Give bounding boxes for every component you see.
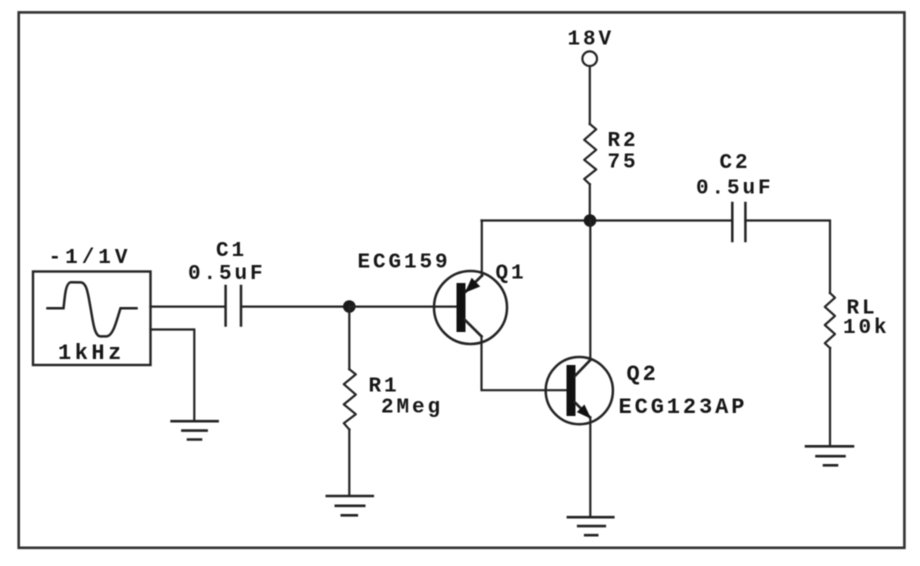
wire node A down to R1 <box>348 307 350 370</box>
ground (R1) <box>327 496 373 515</box>
svg-text:R1: R1 <box>369 376 400 399</box>
transistor Q1 base bar <box>457 283 466 332</box>
ground (Q2) <box>568 517 613 535</box>
wire RL to ground <box>829 348 831 445</box>
wire R1 to ground <box>348 430 350 496</box>
signal source VS box <box>33 272 151 366</box>
ground (source) <box>172 421 218 439</box>
svg-text:75: 75 <box>608 152 639 175</box>
wire node B down to Q2 collector <box>589 221 591 361</box>
svg-text:0.5uF: 0.5uF <box>696 178 774 201</box>
capacitor C2 <box>732 203 745 241</box>
svg-text:R2: R2 <box>608 130 639 153</box>
transistor Q1 circle <box>434 271 507 344</box>
resistor RL <box>825 293 835 348</box>
capacitor C1 <box>226 286 241 326</box>
svg-text:-1/1V: -1/1V <box>49 247 132 270</box>
wire node A to Q1 base <box>350 306 457 308</box>
svg-text:0.5uF: 0.5uF <box>188 263 266 286</box>
transistor Q1 collector line <box>465 320 482 337</box>
wire Q2 emitter down to ground <box>589 417 591 516</box>
wire C2 to RL corner <box>745 221 830 294</box>
svg-text:10k: 10k <box>843 317 890 340</box>
signal source sine wave <box>48 282 137 336</box>
wire top rail left segment <box>482 219 733 221</box>
transistor Q2 base bar <box>567 365 576 416</box>
svg-text:1kHz: 1kHz <box>58 341 125 366</box>
wire R2 to node B <box>589 184 591 220</box>
transistor Q1 emitter line <box>466 276 482 292</box>
transistor Q2 collector line <box>575 360 590 376</box>
wire 18V to R2 <box>589 66 591 124</box>
supply 18V terminal circle <box>582 51 597 66</box>
svg-text:ECG123AP: ECG123AP <box>619 395 748 420</box>
wire source lower terminal to ground <box>151 330 195 421</box>
svg-text:Q1: Q1 <box>496 263 527 286</box>
wire C1 to node A <box>242 306 348 308</box>
transistor Q2 emitter line <box>575 402 590 417</box>
transistor Q2 circle <box>546 357 613 424</box>
resistor R2 <box>584 124 596 184</box>
transistor Q1 emitter arrow (PNP) <box>466 279 478 291</box>
ground (RL) <box>806 446 853 465</box>
svg-text:C1: C1 <box>216 240 247 263</box>
node B junction dot <box>584 214 597 227</box>
wire source to C1 <box>151 306 225 308</box>
svg-text:Q2: Q2 <box>627 362 659 387</box>
wire Q1 collector down and right to Q2 base <box>482 336 567 390</box>
svg-text:18V: 18V <box>568 29 615 52</box>
resistor R1 <box>344 369 356 429</box>
svg-text:ECG159: ECG159 <box>358 252 451 275</box>
svg-text:2Meg: 2Meg <box>381 397 443 420</box>
transistor Q2 emitter arrow (NPN) <box>578 406 589 417</box>
wire Q1 emitter up to top rail <box>481 221 483 277</box>
node A junction dot <box>343 300 356 313</box>
svg-text:C2: C2 <box>720 152 751 175</box>
